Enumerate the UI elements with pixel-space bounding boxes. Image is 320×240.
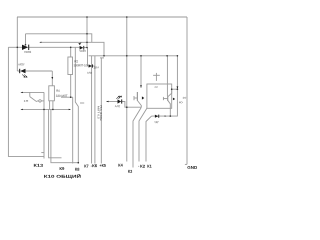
arrow left relay rail lower bbox=[21, 109, 23, 110]
svg-text:+К5: +К5 bbox=[99, 163, 106, 168]
optocoupler LED emission arrows bbox=[116, 97, 118, 99]
transistor VT2 emitter diagonal and stub bbox=[168, 100, 171, 116]
wire x76.8 from diode row down bbox=[75, 47, 78, 162]
wire x52.3 down into R4 bbox=[51, 71, 53, 86]
svg-text:К13: К13 bbox=[33, 163, 44, 168]
svg-text:-К6: -К6 bbox=[91, 163, 98, 168]
svg-text:К2: К2 bbox=[140, 164, 146, 169]
svg-text:АЛ307: АЛ307 bbox=[18, 62, 25, 66]
zener VD04 bbox=[89, 64, 92, 67]
relay contact line from circle bbox=[41, 100, 43, 102]
relay box K1 bbox=[147, 84, 172, 108]
capacitor C2 stem into box bbox=[155, 75, 157, 81]
wire diode VD02 row bbox=[8, 46, 22, 48]
optocoupler LED cathode bar bbox=[121, 99, 122, 103]
diode VD02 triangle bbox=[22, 45, 28, 50]
transistor VT2 collector diagonal bbox=[168, 89, 172, 97]
relay contact lever bbox=[30, 97, 37, 102]
VT2 side mark bbox=[173, 98, 175, 101]
LED AL307 cathode bar bbox=[19, 69, 20, 73]
capacitor C2 top stub bbox=[155, 73, 157, 75]
svg-text:10: 10 bbox=[182, 97, 187, 100]
wire right border to GND bbox=[186, 17, 188, 164]
svg-text:Д814: Д814 bbox=[94, 66, 100, 69]
component labels bbox=[18, 49, 187, 124]
relay contact circle bbox=[39, 100, 41, 102]
LED AL307 emission arrows bbox=[22, 74, 24, 76]
wire diag from y116.1 left end to K1 bbox=[146, 116, 152, 161]
junction dots bbox=[86, 16, 88, 18]
wire jog y57.9 bbox=[100, 57, 104, 59]
wire x101.3 down to K5 bbox=[100, 58, 102, 164]
wire R4 left bottom lead down to corner y157.8 right bbox=[49, 101, 51, 110]
transistor VT2 vertical feed x167.4 bbox=[166, 56, 168, 97]
resistor R4 body bbox=[49, 86, 55, 101]
wire x87.5 down to zener row bbox=[87, 48, 89, 67]
wire stub x25.5 down to diode VD02 bbox=[25, 34, 27, 45]
arrow up-right above VD03 bbox=[78, 43, 80, 45]
LED AL307 triangle pointing left bbox=[20, 69, 25, 73]
wire optocoupler LED feed bbox=[106, 101, 117, 103]
wire R2 bottom lead to y97.2 bbox=[70, 75, 72, 98]
wire relay upper rail y92.4 bbox=[21, 91, 44, 93]
resistor R2 body bbox=[68, 57, 73, 75]
diode VD03 triangle bbox=[80, 46, 84, 50]
terminal labels bbox=[33, 163, 197, 179]
svg-text:VД7: VД7 bbox=[154, 121, 159, 124]
transistor VT1 bar bbox=[136, 92, 138, 101]
transistor VT2 collector link bbox=[172, 88, 178, 90]
arrow left relay rail upper bbox=[21, 92, 23, 93]
wire zener row y66 bbox=[88, 65, 95, 67]
tick at x44 y152.6 bbox=[41, 152, 44, 154]
wire x94.9 down to K6 bbox=[94, 56, 96, 164]
transistor VT2 bar bbox=[167, 96, 169, 101]
wire left big loop x8.4 down, bottom to x44 bbox=[8, 47, 44, 156]
svg-text:К7: К7 bbox=[84, 163, 89, 168]
svg-text:Ю: Ю bbox=[179, 101, 183, 104]
wire VD03 cathode to x87 bbox=[84, 47, 88, 49]
diode VD07 on y116 wire bbox=[155, 115, 158, 118]
arrow down on VT1 collector bbox=[140, 85, 142, 87]
wire y116.1 with right corner up to rail end bbox=[152, 56, 178, 116]
wire rail C y42.3 to corner x104 down to rail y55.8 bbox=[42, 42, 105, 56]
diode VD03 cathode bar bbox=[82, 46, 85, 50]
svg-text:330 МЛТ: 330 МЛТ bbox=[56, 94, 68, 98]
optocoupler LED triangle bbox=[118, 99, 122, 103]
svg-text:VD02: VD02 bbox=[24, 50, 32, 54]
transistor VT1 base bracket bbox=[133, 96, 135, 100]
wire left drop from corner to LED row bbox=[16, 17, 18, 71]
svg-text:R4: R4 bbox=[56, 89, 60, 93]
wire diag from box corner to K2 bbox=[139, 108, 147, 161]
wire x44 down to bottom loop and K13 stub bbox=[43, 92, 45, 158]
wire main rail y55.8 bbox=[89, 55, 178, 57]
svg-text:0,5в: 0,5в bbox=[87, 72, 93, 75]
VT1 side mark bbox=[142, 96, 144, 99]
arrow right at lower rail end bbox=[69, 109, 71, 110]
capacitor C2 plate bbox=[153, 74, 160, 76]
svg-text:К8: К8 bbox=[75, 167, 80, 172]
wire vertical x87 bbox=[86, 17, 88, 48]
wire R2 top lead bbox=[70, 47, 72, 57]
arrow on y116 wire bbox=[165, 115, 167, 116]
wire LED AL307 row bbox=[17, 70, 20, 72]
VD03 arrow tail bbox=[79, 43, 81, 45]
wire x50.9 from rail y109.4 down corner right y162.7 to x76.8 bbox=[51, 109, 78, 162]
svg-text:1П: 1П bbox=[23, 100, 28, 103]
wire LED cathode jog to y107.2 bbox=[121, 102, 141, 108]
svg-text:К9: К9 bbox=[59, 166, 65, 171]
transistor VT2 base bracket bbox=[162, 97, 164, 100]
svg-text:МЛТ 0,5: МЛТ 0,5 bbox=[97, 106, 100, 120]
wire collector x141 from rail bbox=[140, 56, 142, 88]
wire x91.6 down to K7 bbox=[91, 56, 93, 164]
wire diag to K3 bbox=[133, 107, 141, 167]
svg-text:GND: GND bbox=[187, 165, 197, 170]
svg-text:VD03: VD03 bbox=[79, 49, 86, 53]
svg-text:К10 ОБЩИЙ: К10 ОБЩИЙ bbox=[44, 174, 81, 179]
arrow down on x177.4 bbox=[177, 86, 179, 88]
svg-text:К3: К3 bbox=[128, 169, 133, 174]
svg-text:К4: К4 bbox=[118, 163, 123, 168]
wire x72.8 down to K8 area bbox=[72, 97, 74, 163]
svg-text:К1: К1 bbox=[147, 164, 152, 169]
wire y97.2 horizontal bbox=[61, 96, 73, 98]
svg-text:АЛ2: АЛ2 bbox=[115, 105, 121, 108]
wire x126.8 from rail through LED node down to K4 bbox=[126, 17, 128, 162]
arrow left at rail C end bbox=[39, 42, 41, 43]
transistor VT1 emitter diagonal bbox=[137, 101, 141, 108]
wire x48.6 from rail y109.4 down corner right to K9 bbox=[49, 109, 62, 157]
relay contact stub bbox=[29, 92, 31, 96]
wire top rail bbox=[17, 16, 187, 18]
arrow left at optocoupler LED feed bbox=[106, 101, 108, 102]
wire R4 bottom lead to relay rail bbox=[52, 101, 54, 110]
wire rail A y33.8 with corner down x91.8 bbox=[26, 34, 92, 43]
wire relay lower rail y109.4 bbox=[21, 108, 71, 110]
arrow down on R4 feed bbox=[51, 77, 53, 79]
diode VD02 cathode bar bbox=[28, 45, 29, 50]
svg-text:330МЛТ-0,5: 330МЛТ-0,5 bbox=[74, 63, 88, 67]
svg-text:С2: С2 bbox=[155, 86, 159, 89]
